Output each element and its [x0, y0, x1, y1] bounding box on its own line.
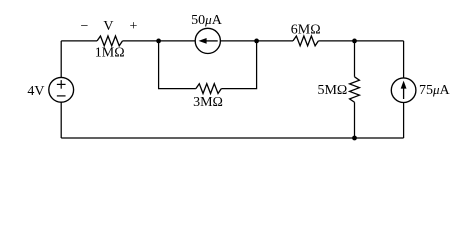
resistor R4 5Mohm vertical zigzag — [350, 77, 360, 102]
svg-text:1MΩ: 1MΩ — [95, 46, 125, 61]
voltage source V1 minus sign — [57, 95, 66, 97]
voltage source V1 plus sign — [57, 83, 66, 85]
wire bottom — [61, 137, 403, 139]
svg-text:4V: 4V — [27, 84, 44, 99]
svg-text:+: + — [130, 19, 138, 34]
current source I2 75uA circle — [391, 78, 416, 103]
wire top-right corner down to current source I2 — [403, 41, 405, 78]
wire R1 to current source I1 — [123, 40, 196, 42]
resistor R1 1Mohm zigzag — [97, 36, 122, 46]
svg-text:75μA: 75μA — [419, 82, 451, 98]
resistor R3 3Mohm zigzag — [196, 84, 221, 94]
wire I2 down to bottom-right corner — [403, 103, 405, 139]
current source I1 50uA circle — [195, 28, 220, 53]
svg-text:50μA: 50μA — [191, 12, 223, 28]
resistor R2 6Mohm zigzag — [293, 36, 318, 46]
svg-text:6MΩ: 6MΩ — [291, 23, 321, 38]
node A junction dot — [156, 39, 161, 44]
current source I1 arrow pointing left — [206, 40, 218, 42]
svg-text:−: − — [81, 19, 89, 34]
wire R2 to top-right corner — [318, 40, 403, 42]
wire node C down to resistor R4 — [354, 41, 356, 77]
node C junction dot — [352, 39, 357, 44]
wire bottom-left corner up to voltage source V1 — [60, 102, 62, 138]
wire R4 down to bottom node — [354, 102, 356, 138]
wire top-left segment — [61, 40, 97, 42]
wire I1 to resistor R2 — [220, 40, 293, 42]
wire node A down and left of parallel branch — [159, 41, 196, 89]
current source I2 arrow pointing up — [403, 87, 405, 99]
svg-text:5MΩ: 5MΩ — [317, 83, 347, 98]
wire R3 right side up to node B — [221, 41, 256, 89]
wire V1 up to top-left corner — [60, 41, 62, 78]
node D junction dot on bottom wire — [352, 136, 357, 141]
svg-text:V: V — [103, 19, 113, 34]
node B junction dot — [254, 39, 259, 44]
voltage source V1 4V circle — [49, 77, 74, 102]
svg-text:3MΩ: 3MΩ — [193, 95, 223, 110]
